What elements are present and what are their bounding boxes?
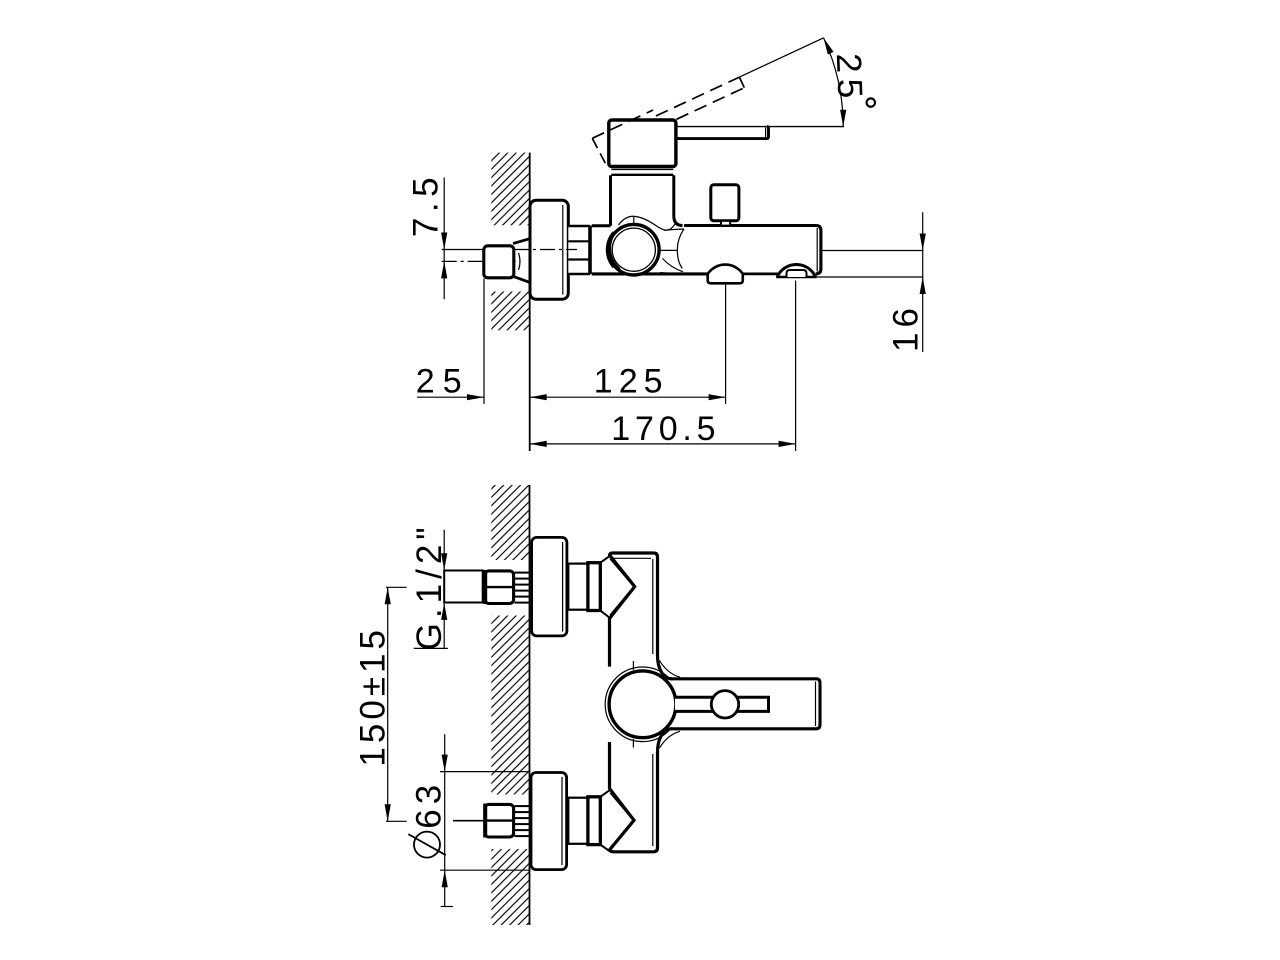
top inlet centerline (454, 586, 484, 588)
valve column right edge with fillet into body (674, 175, 683, 225)
dimension dia63: extension top (440, 771, 530, 773)
dimension 150+-15: dimension line (387, 587, 389, 821)
top inlet spacer (568, 564, 588, 610)
spout outlet dome (777, 264, 815, 277)
bottom flange inner line (561, 777, 563, 865)
25 degree dimension: upper arrowhead (824, 38, 834, 55)
body right inner line lower (652, 754, 654, 846)
wall face line (plan) (529, 485, 531, 925)
wall hatching band 1 (plan) (491, 485, 529, 560)
extension line from nipple left face (483, 279, 485, 405)
handle collar curves (plan) (660, 661, 681, 678)
casting saddle curve above circle (619, 216, 677, 230)
body top edge (left stub) (592, 224, 611, 227)
extension line from spout center (795, 281, 797, 452)
top inlet threaded stub (515, 573, 530, 603)
wall flange (escutcheon, side view) (530, 200, 568, 299)
dimension dia63: dimension line (444, 734, 446, 906)
25 degree dimension: lower ray (676, 126, 844, 128)
cartridge circle left emphasis arc (610, 227, 621, 269)
neck ring groove upper line (611, 168, 673, 170)
cartridge circle (thick) (609, 224, 660, 275)
dimension 150: bottom arrow (down) (385, 804, 391, 821)
lever bottom edge (676, 137, 768, 140)
spout inner opening (787, 270, 807, 277)
paddle end inner line (815, 682, 817, 727)
bottom inlet nut middle line (485, 819, 514, 821)
dimension G.1/2: bottom tick (414, 647, 448, 649)
wall hatching band 2 (plan) (491, 616, 529, 795)
diverter knob (711, 185, 739, 221)
bottom inlet spacer (568, 798, 588, 844)
casting outer arc left of circle (606, 232, 613, 268)
cartridge cap thick circle (plan) (609, 671, 676, 738)
casting waist flat branch (664, 229, 684, 230)
extension line from diverter center (725, 266, 727, 405)
svg-text:25: 25 (829, 53, 870, 105)
svg-text:16: 16 (887, 303, 926, 352)
body top edge (right section) (684, 226, 821, 274)
svg-text:25: 25 (416, 362, 470, 400)
casting lower waist curve (663, 259, 684, 272)
body bottom edge (between dome and spout) (742, 273, 778, 276)
neck ring groove lower line (611, 174, 673, 176)
dimension 150: bottom tick (386, 820, 407, 822)
dimension G.1/2: upper arrow (down) (441, 553, 447, 570)
wall hatching band 3 (plan) (491, 849, 529, 925)
bottom inlet threaded stub (515, 806, 530, 836)
dimension dia63: top arrow (down) (442, 755, 448, 772)
dimension dia63: bottom tick (441, 906, 453, 908)
housing parting ticks (632, 661, 634, 670)
dimension 25: line + arrow (417, 396, 484, 398)
bottom inlet union nut (588, 797, 600, 845)
faucet axis centerline (extended left) (442, 249, 485, 251)
bottom inlet chamfer diagonals (600, 790, 609, 796)
dimension 16: upper extension line (822, 250, 924, 252)
dimension dia63: bottom arrow (up) (442, 870, 448, 887)
body left edge: between circle and bottom notch (610, 742, 635, 850)
body right edge inner line (816, 228, 818, 272)
supply centerline (dash-dot) (442, 260, 516, 262)
body bottom edge (left of diverter dome) (592, 272, 709, 275)
dimension 7.5: upper arrow (down) (441, 233, 447, 250)
body top inner line (613, 557, 651, 559)
taper cone to wall: bottom edge (513, 276, 531, 282)
body silhouette fill (plan) (572, 553, 820, 852)
25 degree dimension: degree symbol (867, 98, 875, 106)
hidden handle dashed outline: lever bottom edge (677, 88, 745, 120)
body right edge lower + bottom edge (610, 729, 673, 852)
top cone inner thin V (610, 559, 632, 615)
dimension 7.5: lower arrow (up) (441, 261, 447, 278)
casting right concave line (677, 229, 684, 269)
dimension 150: top arrow (up) (385, 587, 391, 604)
dimension 170.5: line + arrows (530, 443, 796, 445)
svg-text:63: 63 (409, 780, 448, 829)
top inlet nut middle line (485, 586, 514, 588)
svg-text:150±15: 150±15 (354, 626, 393, 767)
svg-text:7.5: 7.5 (406, 172, 445, 237)
dimension 150: top tick (386, 586, 407, 588)
bottom inlet nut (485, 804, 514, 837)
25 degree dimension: arc (824, 38, 844, 127)
svg-text:G.1/2": G.1/2" (410, 522, 449, 650)
hidden handle dashed outline: cap left edge (592, 138, 606, 164)
body left edge: top V notch (610, 555, 635, 666)
dimension 7.5: dimension line (443, 178, 445, 300)
valve column left edge (609, 175, 612, 226)
handle stem (plan) (675, 697, 769, 711)
wall hatching upper band (side view) (491, 153, 529, 226)
cartridge housing thin circle (plan) (605, 667, 680, 742)
body left end cap (thick bar) (588, 226, 592, 275)
bottom cone inner thin V (610, 793, 632, 849)
svg-text:170.5: 170.5 (611, 410, 720, 448)
dimension dia63: extension bottom (440, 869, 530, 871)
casting lower fillet line (660, 273, 684, 274)
handle lever (horizontal position) fill (676, 127, 769, 139)
hidden handle dashed outline: lever top edge (656, 77, 740, 116)
hidden handle dashed outline: lever end (739, 77, 744, 88)
hidden (raised) handle dashed outline: cap top edge (592, 110, 653, 138)
top inlet flange (532, 537, 567, 636)
taper cone to wall: top edge (513, 238, 531, 243)
lever end cap (767, 127, 769, 139)
top flange inner line (562, 542, 564, 632)
diverter stem (721, 221, 730, 226)
faucet axis dash-dot centerline through flange (514, 249, 577, 251)
handle paddle fill (plan) (668, 679, 820, 729)
25 degree dimension: upper ray (739, 38, 823, 77)
valve column fill (611, 175, 674, 227)
diverter dome under body (708, 265, 743, 284)
dimension 16: lower arrow (up) (920, 277, 926, 294)
taper inner detail arc (519, 253, 521, 270)
handle paddle outline (plan) (670, 679, 820, 729)
casting waist center tick (661, 249, 678, 251)
bottom inlet centerline (453, 820, 484, 822)
main body fill (side view) (592, 226, 821, 274)
top inlet chamfer diagonals (600, 556, 609, 562)
handle screw circle (plan) (711, 691, 738, 718)
casting parting tick above circle (633, 216, 635, 224)
body right inner line upper (652, 559, 654, 654)
cartridge cap (609, 120, 676, 167)
top inlet union nut (588, 563, 600, 611)
wall face line (side view) (529, 153, 531, 451)
dimension 16: lower extension line (817, 276, 924, 278)
dimension dia63: diameter symbol (414, 832, 440, 858)
body outline strokes (plan): top edge + right edge upper (610, 553, 673, 679)
dimension 16: upper arrow (down) (920, 234, 926, 251)
dimension G.1/2: lower arrow (up) (441, 603, 447, 620)
flange inner highlight line (562, 205, 564, 295)
top inlet supply pipe (444, 571, 483, 603)
cartridge circle inner thin (612, 228, 655, 271)
supply nipple (eccentric union) (484, 246, 514, 278)
top inlet nut left thick edge (483, 570, 487, 604)
top inlet nut (485, 571, 514, 604)
dimension 125: line + arrows (530, 396, 726, 398)
lever end inner line (765, 128, 767, 138)
25 degree dimension: lower arrowhead (840, 110, 846, 127)
spout bottom edge (776, 276, 816, 279)
bottom inlet flange (531, 773, 567, 870)
svg-text:125: 125 (594, 362, 669, 400)
threaded connector block (568, 226, 588, 274)
dimension 16: dimension line (922, 212, 924, 352)
wall hatching lower band (side view) (491, 292, 529, 331)
dimension G.1/2: dimension line (443, 530, 445, 649)
bottom inlet nut left thick edge (483, 804, 487, 838)
